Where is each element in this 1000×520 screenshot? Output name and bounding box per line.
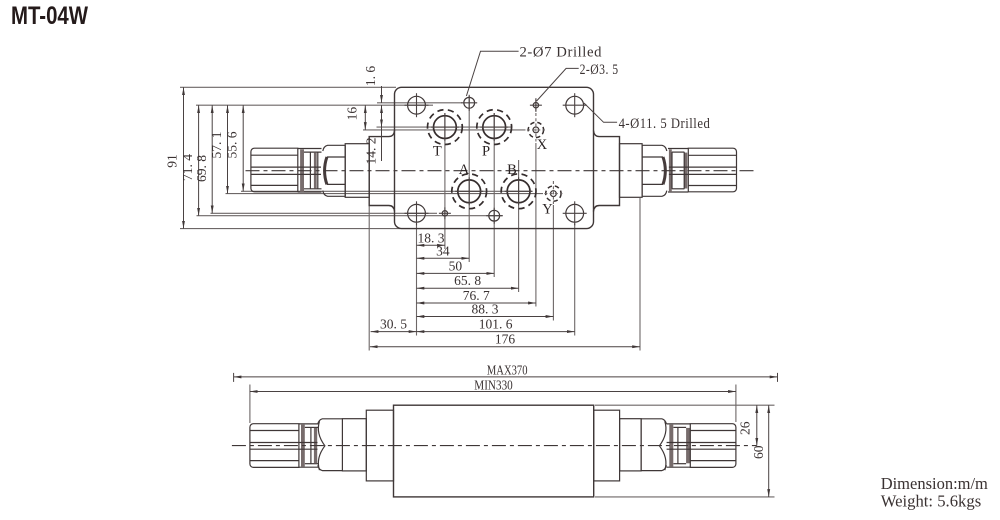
svg-text:71. 4: 71. 4 [180, 154, 195, 181]
svg-text:69. 8: 69. 8 [194, 155, 209, 182]
hole 7dia bottom [486, 208, 502, 224]
port X [527, 113, 545, 142]
corner hole BL [405, 201, 429, 225]
svg-text:P: P [482, 144, 490, 160]
svg-text:1. 6: 1. 6 [363, 66, 378, 87]
right hex [641, 419, 666, 471]
left plate [366, 410, 393, 481]
hole 7dia top [461, 95, 477, 111]
corner hole TR [563, 93, 587, 117]
extension row lines [180, 87, 543, 228]
svg-text:30. 5: 30. 5 [380, 317, 407, 332]
dim 69.8 [194, 105, 212, 213]
MAX370 dim [234, 373, 778, 382]
svg-text:Y: Y [542, 202, 553, 218]
svg-text:91: 91 [165, 154, 180, 168]
leader and note 2-O7 Drilled [466, 45, 602, 97]
svg-text:34: 34 [436, 243, 450, 258]
main centerline [246, 170, 756, 172]
dim 91 body height [165, 87, 184, 228]
body rect [394, 405, 594, 497]
svg-text:88. 3: 88. 3 [472, 302, 499, 317]
right hex nut [642, 145, 667, 196]
svg-text:MAX370: MAX370 [487, 362, 528, 377]
dim 1.6 [363, 66, 382, 103]
svg-text:2-Ø3. 5: 2-Ø3. 5 [580, 62, 619, 78]
right mounting plate [594, 131, 620, 212]
svg-text:Dimension:m/m: Dimension:m/m [881, 474, 988, 493]
svg-text:60: 60 [751, 445, 766, 459]
svg-text:Weight: 5.6kgs: Weight: 5.6kgs [881, 492, 982, 511]
dim 176 overall [370, 332, 640, 347]
MIN330 dim [250, 385, 736, 424]
valve body [395, 87, 594, 228]
left bolt end [251, 148, 321, 192]
svg-text:16: 16 [345, 107, 360, 121]
svg-text:176: 176 [495, 332, 516, 347]
svg-text:50: 50 [449, 258, 463, 273]
right block [620, 144, 643, 198]
corner hole BR [563, 201, 587, 225]
dim 57.1 [209, 105, 228, 193]
svg-text:MT-04W: MT-04W [11, 3, 89, 30]
dim 50 P column [417, 258, 495, 273]
port P [477, 110, 512, 145]
dim 76.7 X column [417, 288, 536, 303]
right block [620, 419, 642, 471]
dim 16 [345, 105, 366, 130]
svg-text:MIN330: MIN330 [474, 377, 513, 392]
right dims of bottom view [595, 405, 775, 497]
svg-text:T: T [433, 144, 442, 160]
svg-text:4-Ø11. 5 Drilled: 4-Ø11. 5 Drilled [619, 116, 711, 132]
port B [501, 174, 536, 209]
svg-text:B: B [507, 162, 517, 178]
dim 34 A column [417, 243, 470, 258]
dim 71.4 [180, 105, 199, 216]
port Y [544, 181, 562, 204]
left hex nut [323, 145, 345, 196]
dim 14.2 [363, 105, 381, 164]
svg-text:101. 6: 101. 6 [479, 317, 513, 332]
svg-text:65. 8: 65. 8 [454, 273, 481, 288]
svg-text:55. 6: 55. 6 [224, 131, 239, 158]
bottom centerline [232, 445, 757, 447]
left band section [299, 424, 318, 467]
right bolt [667, 424, 736, 468]
dim 30.5 left offset [371, 317, 417, 332]
svg-text:14. 2: 14. 2 [363, 138, 378, 165]
left mounting plate [369, 131, 394, 212]
svg-text:26: 26 [737, 421, 752, 435]
right band section [667, 424, 691, 467]
port A [452, 174, 487, 209]
dim 18.3 T column [417, 230, 445, 245]
left block [342, 419, 366, 471]
svg-text:57. 1: 57. 1 [209, 132, 224, 159]
dim 101.6 corner columns [417, 317, 575, 332]
left band section [298, 149, 322, 193]
hole 3.5dia top [530, 99, 542, 111]
port T [428, 110, 463, 145]
leader and note 4-O11.5 Drilled [584, 103, 710, 132]
leader and note 2-O3.5 [537, 62, 619, 101]
left bolt [250, 424, 318, 468]
left hex [318, 419, 343, 471]
extension column lines [369, 96, 640, 351]
dim 55.6 [224, 105, 243, 191]
corner hole TL [405, 93, 429, 117]
right plate [594, 410, 620, 481]
dim 88.3 Y column [417, 302, 554, 317]
right band section [668, 149, 688, 193]
hole 3.5dia bottom [439, 207, 451, 219]
dim 65.8 B column [417, 273, 519, 288]
svg-text:A: A [459, 162, 470, 178]
svg-text:2-Ø7 Drilled: 2-Ø7 Drilled [520, 45, 603, 61]
svg-text:X: X [537, 137, 548, 153]
left block [345, 144, 369, 198]
right bolt end [669, 148, 737, 192]
